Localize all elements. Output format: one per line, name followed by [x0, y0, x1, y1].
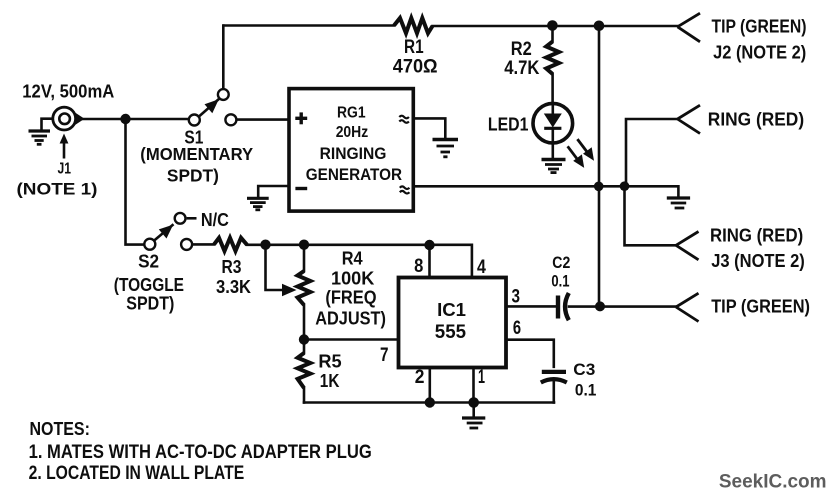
wire pin 2 riser: [428, 368, 431, 403]
svg-text:(FREQ: (FREQ: [325, 286, 376, 307]
ground at LED cathode: [542, 160, 566, 173]
svg-text:R4: R4: [342, 247, 364, 268]
svg-text:4: 4: [477, 256, 486, 278]
ground at pin 1: [462, 403, 485, 429]
wire R2 to LED: [551, 74, 554, 104]
ground at right bus: [667, 198, 690, 208]
LED1 emission arrow upper: [577, 139, 594, 161]
wire R2 top lead: [551, 26, 554, 42]
LED1 diode triangle: [544, 114, 562, 128]
svg-text:R2: R2: [511, 39, 532, 60]
svg-text:20Hz: 20Hz: [336, 124, 369, 141]
wire pin 8 riser: [428, 245, 431, 278]
svg-text:8: 8: [414, 255, 423, 277]
switch S2 pole contact: [144, 239, 155, 250]
wire RG1 output bus to right ground: [414, 186, 679, 196]
connector arrow TIP upper (J2): [678, 13, 701, 42]
RG1 plus terminal mark: [295, 112, 307, 124]
switch S2 throw contact: [181, 239, 192, 250]
switch S1 blade: [199, 99, 220, 117]
svg-text:SeekIC.com: SeekIC.com: [719, 470, 827, 492]
svg-text:ADJUST): ADJUST): [315, 307, 386, 328]
svg-text:3: 3: [512, 286, 521, 307]
svg-text:NOTES:: NOTES:: [30, 418, 90, 439]
wire R5 bottom lead: [303, 388, 306, 403]
potentiometer R4 body: [298, 271, 311, 305]
svg-text:100K: 100K: [331, 267, 375, 288]
wire R4 top lead: [303, 245, 306, 271]
wire pin 7: [304, 338, 398, 341]
connector J1 outer ring: [53, 107, 76, 130]
svg-text:12V, 500mA: 12V, 500mA: [22, 82, 114, 102]
wire bottom ground bus: [304, 401, 554, 404]
svg-text:(NOTE 1): (NOTE 1): [17, 181, 98, 199]
wire J1 to S1 pole: [82, 118, 189, 121]
switch S2 blade: [154, 224, 174, 241]
junction node pin 8: [424, 240, 434, 250]
J1 pointer arrow: [60, 134, 69, 159]
resistor R1: [394, 18, 433, 33]
svg-text:1K: 1K: [320, 370, 340, 391]
switch S1 top contact: [218, 89, 229, 100]
wire pin 6 to C3: [506, 340, 554, 367]
wire S1 riser to top rail: [222, 26, 225, 89]
svg-text:RING (RED): RING (RED): [708, 110, 804, 130]
potentiometer R4 wiper arrowhead: [282, 284, 297, 296]
junction node pin 2: [425, 397, 435, 407]
switch S1 throw contact: [225, 114, 236, 125]
connector arrow TIP lower: [676, 293, 699, 321]
svg-text:TIP (GREEN): TIP (GREEN): [711, 296, 810, 316]
wire S1 throw to RG1 plus input: [237, 118, 289, 121]
wire pin 1 riser: [472, 368, 475, 403]
box IC1 555 timer: [399, 278, 507, 368]
resistor R5: [298, 353, 311, 388]
svg-text:J1: J1: [58, 161, 72, 178]
junction node top rail R2: [547, 20, 558, 31]
svg-text:3.3K: 3.3K: [216, 276, 252, 297]
switch S2 N/C tick: [187, 217, 197, 220]
svg-text:J3 (NOTE 2): J3 (NOTE 2): [711, 251, 805, 271]
junction node pin 1: [468, 397, 479, 408]
wire R5 top lead: [303, 340, 306, 354]
resistor R2: [546, 42, 559, 74]
wire J3 RING drop: [625, 186, 677, 245]
junction node R3/R4 wiper: [260, 240, 270, 250]
box RG1 ringing generator: [289, 89, 413, 212]
junction node bus right: [620, 181, 630, 191]
ground at J1: [29, 131, 51, 144]
LED1 cathode bar: [544, 127, 561, 130]
junction node top rail right: [594, 21, 605, 32]
capacitor C2: [558, 293, 569, 320]
wire J1 ground lead: [42, 119, 54, 130]
junction node bus left: [594, 182, 604, 192]
svg-text:C2: C2: [552, 254, 570, 272]
LED1 emission arrow lower: [568, 146, 585, 168]
svg-text:2: 2: [415, 367, 425, 388]
wire C3 bottom lead: [552, 380, 555, 403]
resistor R3: [214, 238, 247, 251]
wire pin 3 to C2: [506, 305, 555, 308]
junction node C2 output: [595, 301, 605, 311]
svg-text:R3: R3: [222, 256, 242, 277]
svg-text:470Ω: 470Ω: [393, 57, 438, 78]
junction node R4 top: [299, 240, 309, 250]
wire S2 throw to R3: [193, 243, 214, 246]
connector arrow RING upper: [678, 105, 701, 133]
svg-text:1. MATES WITH AC-TO-DC ADAPTER: 1. MATES WITH AC-TO-DC ADAPTER PLUG: [29, 442, 372, 463]
switch S1 pole contact: [189, 115, 200, 126]
wire RG1 minus to ground: [258, 186, 289, 198]
svg-text:RG1: RG1: [337, 105, 366, 122]
wire R4 wiper arm: [266, 245, 284, 290]
svg-text:IC1: IC1: [437, 300, 466, 320]
wire junction riser down to S2: [126, 119, 144, 245]
svg-text:R1: R1: [404, 37, 424, 58]
svg-text:TIP (GREEN): TIP (GREEN): [712, 17, 807, 37]
capacitor C3: [541, 372, 567, 383]
ground at RG1 minus: [247, 198, 269, 210]
svg-text:0.1: 0.1: [575, 381, 597, 400]
svg-text:0.1: 0.1: [551, 273, 569, 291]
svg-text:SPDT): SPDT): [126, 293, 174, 314]
RG1 AC mark bottom: [400, 186, 410, 193]
connector J1 inner ring: [59, 114, 70, 125]
wire LED cathode to ground: [551, 143, 554, 158]
svg-text:R5: R5: [318, 350, 341, 371]
svg-text:LED1: LED1: [488, 115, 529, 135]
wire RING upper drop: [626, 119, 678, 186]
wire RG1 top AC out to ground: [414, 118, 446, 137]
connector arrow RING J3: [676, 232, 699, 260]
svg-text:1: 1: [478, 367, 485, 388]
ground at RG1 AC top: [433, 140, 459, 157]
RG1 AC mark top: [399, 116, 409, 123]
svg-text:7: 7: [380, 345, 389, 366]
wire R3 to pin4 corner: [247, 245, 472, 278]
wire right vertical rail: [598, 26, 601, 307]
svg-text:S2: S2: [138, 251, 159, 272]
svg-text:RINGING: RINGING: [320, 145, 387, 163]
svg-text:J2 (NOTE 2): J2 (NOTE 2): [713, 42, 806, 62]
svg-text:6: 6: [513, 318, 521, 339]
svg-text:4.7K: 4.7K: [504, 58, 539, 79]
connector J1 tip contact: [75, 113, 85, 126]
LED1 body circle: [533, 103, 573, 143]
junction node R4 bottom: [299, 334, 309, 344]
wire R4 bottom lead: [303, 305, 306, 340]
switch S2 N/C contact: [175, 213, 186, 224]
svg-text:N/C: N/C: [201, 209, 229, 230]
wire C2 to TIP lower point: [569, 305, 676, 308]
svg-text:RING (RED): RING (RED): [710, 226, 803, 246]
svg-text:C3: C3: [573, 360, 595, 379]
junction node at J1 branch: [120, 114, 130, 124]
LED1 anode/cathode stem: [551, 104, 554, 142]
svg-text:2. LOCATED IN WALL PLATE: 2. LOCATED IN WALL PLATE: [29, 463, 245, 484]
wire top rail left of R1: [224, 24, 394, 27]
wire top rail right of R1: [433, 25, 678, 28]
svg-text:(MOMENTARY: (MOMENTARY: [140, 144, 253, 164]
svg-text:555: 555: [435, 321, 466, 343]
svg-text:GENERATOR: GENERATOR: [306, 165, 402, 184]
svg-text:SPDT): SPDT): [167, 166, 219, 186]
RG1 minus terminal mark: [295, 187, 307, 190]
